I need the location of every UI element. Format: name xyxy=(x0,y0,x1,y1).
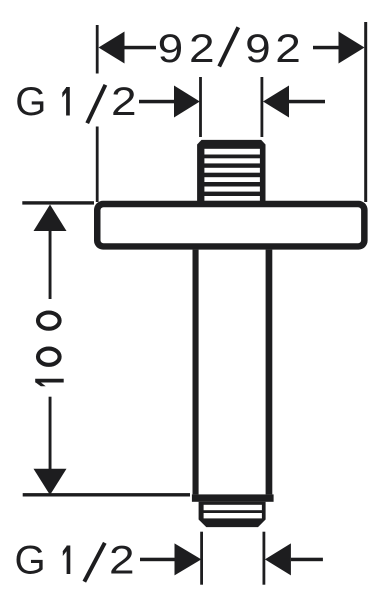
ceiling plate outer xyxy=(94,201,368,250)
thread stripe 5 xyxy=(204,187,260,192)
extension line left of 92/92 dimension upper segment xyxy=(96,25,99,74)
100 dimension lower line xyxy=(49,397,52,470)
label 100 rotated: digit 1 xyxy=(35,379,64,383)
svg-text:2: 2 xyxy=(111,80,137,124)
extension line right of 92/92 dimension xyxy=(364,22,367,202)
100 dimension upper line xyxy=(49,229,52,299)
digit 1 of G 1/2 bottom xyxy=(67,546,71,575)
arrowhead pointing right at bottom thread left xyxy=(175,543,202,575)
pipe left wall xyxy=(193,250,199,495)
bottom thread stripe 1 xyxy=(204,505,262,510)
thread stripe 6 xyxy=(204,196,260,201)
svg-text:G: G xyxy=(15,80,46,124)
dimension line 92/92 left tail xyxy=(122,46,156,50)
svg-text:9: 9 xyxy=(158,27,184,71)
thread stripe 3 xyxy=(204,168,260,173)
svg-text:2: 2 xyxy=(109,539,135,583)
slash of 92/92 xyxy=(219,27,238,66)
label 100 rotated: second 0 xyxy=(38,313,60,329)
thread stripe 2 xyxy=(204,158,260,163)
100 dimension top extension line xyxy=(22,201,94,204)
extension line left of 92/92 dimension lower segment xyxy=(96,127,99,203)
top threaded pipe body xyxy=(197,140,265,202)
arrowhead pointing right at top thread left xyxy=(174,86,200,118)
dimension tail G1/2 top xyxy=(139,100,177,104)
digit 1 of G 1/2 top xyxy=(66,87,70,116)
label 100 rotated: first 0 xyxy=(38,349,60,365)
bottom collar xyxy=(192,494,274,501)
arrowhead pointing left at top thread right xyxy=(263,86,289,118)
arrowhead pointing left at bottom thread right xyxy=(265,543,291,575)
bottom thread stripe 2 xyxy=(204,513,262,518)
thread stripe 1 xyxy=(204,149,260,155)
extension line at thread left xyxy=(199,77,202,137)
100 dimension down arrowhead xyxy=(34,469,67,495)
svg-text:9: 9 xyxy=(245,27,271,71)
extension line bottom thread right xyxy=(263,532,266,585)
svg-text:G: G xyxy=(15,539,46,583)
svg-text:2: 2 xyxy=(275,27,301,71)
arrowhead left of 92/92 xyxy=(99,32,125,64)
svg-text:2: 2 xyxy=(189,27,215,71)
tail line right of thread arrows xyxy=(289,100,325,104)
extension line at thread right xyxy=(261,77,264,137)
ceiling plate inner xyxy=(101,207,362,243)
bottom threaded tip xyxy=(199,502,266,527)
100 dimension bottom extension line xyxy=(23,493,190,496)
slash of G 1/2 bottom xyxy=(84,543,105,582)
thread stripe 4 xyxy=(204,177,260,182)
dimension tail G1/2 bottom xyxy=(140,558,176,562)
extension line bottom thread left xyxy=(200,532,203,585)
dimension line 92/92 right tail xyxy=(313,46,341,50)
tail line right of bottom arrows xyxy=(291,558,323,562)
pipe right wall xyxy=(266,250,273,495)
slash of G 1/2 top xyxy=(87,85,105,123)
100 dimension up arrowhead xyxy=(34,205,67,232)
arrowhead right of 92/92 xyxy=(339,32,365,64)
